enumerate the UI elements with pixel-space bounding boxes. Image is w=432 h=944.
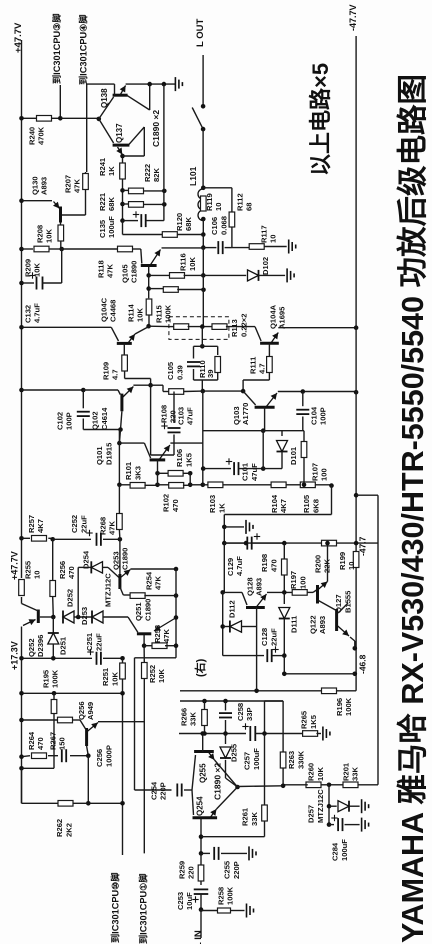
svg-text:Q255: Q255	[199, 763, 208, 783]
transistor Q138 base bar	[113, 94, 128, 97]
resistor R261 33K	[264, 734, 266, 806]
svg-text:L OUT: L OUT	[195, 18, 206, 47]
ground (zobel)	[289, 240, 296, 254]
svg-text:YAMAHA 雅马哈 RX-V530/430/HTR-555: YAMAHA 雅马哈 RX-V530/430/HTR-5550/5540 功放后…	[396, 74, 430, 943]
wire R195 bottom to rail	[22, 767, 55, 769]
svg-text:R257: R257	[27, 515, 36, 533]
dashed box around R113 pair	[169, 317, 229, 340]
wire right side vertical (ground line)	[163, 84, 165, 221]
svg-text:R263: R263	[287, 751, 296, 769]
transistor Q138 emitter arrow	[120, 86, 126, 96]
wire Q254 emitter to right vertex	[217, 787, 238, 809]
svg-text:D2396: D2396	[36, 635, 45, 657]
transistor Q251 emitter arrow	[154, 618, 176, 632]
resistor R114	[148, 290, 150, 298]
junction rail y=538.3	[19, 536, 24, 541]
svg-text:4K7: 4K7	[279, 499, 288, 513]
wire rail to R240	[22, 117, 37, 119]
svg-text:3K3: 3K3	[133, 466, 142, 480]
junction L101 top	[201, 186, 206, 191]
svg-text:150: 150	[58, 737, 67, 750]
wire R106 right down	[189, 473, 191, 485]
svg-text:470: 470	[171, 499, 180, 512]
wire R112 branch up/right	[203, 187, 232, 189]
svg-text:R109: R109	[101, 362, 110, 380]
transistor Q252 collector diagonal	[22, 604, 39, 612]
resistor R260 10K	[319, 784, 329, 786]
resistor R113a (0.22)	[169, 326, 175, 328]
transistor Q137 collector diagonal	[128, 127, 144, 145]
resistor R109	[122, 355, 128, 371]
svg-text:D102: D102	[261, 257, 270, 275]
wire Q102 emitter right	[133, 384, 150, 386]
svg-text:到IC301CPU④脚: 到IC301CPU④脚	[78, 14, 89, 85]
svg-text:R115: R115	[154, 304, 163, 323]
transistor Q256 base bar	[85, 728, 88, 746]
wire right bend down	[331, 485, 333, 515]
transistor Q127 base bar	[335, 609, 338, 631]
svg-text:R258: R258	[216, 887, 225, 905]
junction L101 bottom	[201, 217, 206, 222]
junction Q254 base node	[199, 851, 204, 856]
transistor Q105 collector	[148, 267, 150, 276]
svg-text:C1890: C1890	[121, 548, 130, 570]
svg-text:C251: C251	[85, 632, 94, 651]
svg-text:R104: R104	[270, 494, 279, 513]
svg-text:A1695: A1695	[278, 306, 287, 329]
power rail +47.7V (left)	[21, 40, 23, 578]
svg-text:D254: D254	[81, 550, 90, 569]
resistor R268 47K (x=119.4 line)	[118, 485, 120, 513]
wire Q253 emitter right	[130, 568, 176, 570]
transistor Q103 base bar	[255, 406, 275, 409]
junction R266 bottom	[202, 731, 207, 736]
svg-text:10: 10	[268, 235, 277, 243]
resistor R120	[162, 232, 177, 238]
capacitor C105 0.39	[193, 346, 195, 358]
svg-text:-47.7V: -47.7V	[348, 4, 358, 31]
wire rail bottom bend	[21, 768, 23, 803]
wire L OUT down	[202, 55, 204, 106]
svg-text:Q256: Q256	[77, 701, 86, 720]
transistor Q138 collector lead	[114, 84, 116, 95]
svg-text:47K: 47K	[108, 521, 117, 535]
capacitor C132 4.7uF	[19, 281, 24, 286]
svg-text:+47.7V: +47.7V	[13, 22, 24, 53]
wire x=119.4 down	[118, 443, 120, 485]
wire x=378 bottom to R201	[358, 784, 378, 786]
transistor Q105 emitter arrow	[150, 250, 161, 266]
svg-text:C252: C252	[70, 515, 79, 533]
svg-text:D255: D255	[229, 743, 238, 762]
wire Q128 base	[223, 591, 242, 593]
transistor Q122 base lead	[313, 590, 317, 592]
svg-text:R118: R118	[96, 260, 105, 278]
wire node down to R262 node	[87, 756, 89, 804]
resistor R107 100	[303, 431, 305, 441]
transistor Q102 collector	[121, 411, 122, 429]
transistor Q253 base bar	[118, 574, 121, 589]
svg-text:D253: D253	[80, 607, 89, 625]
svg-text:C256: C256	[95, 749, 104, 767]
svg-text:R101: R101	[124, 461, 133, 480]
wire node to C252	[53, 538, 91, 540]
transistor Q255 emitter arrow	[208, 752, 215, 761]
transistor Q254 base bar	[193, 816, 218, 819]
main line y=391 to C101 wire	[202, 391, 204, 485]
main line D102 to R115 node	[202, 275, 204, 326]
junction rail/R240 wire	[19, 116, 24, 121]
transistor Q251 collector diagonal	[128, 617, 138, 632]
junction C284	[327, 822, 332, 827]
resistor R263 330K	[280, 752, 286, 768]
svg-text:C1890 ×2: C1890 ×2	[151, 110, 161, 147]
wire C252 to node	[103, 538, 120, 540]
svg-text:L101: L101	[188, 166, 198, 186]
node CPU pin 4 wire	[86, 84, 88, 172]
wire to R258	[201, 910, 217, 912]
svg-text:R111: R111	[248, 356, 257, 374]
svg-text:Q138: Q138	[100, 88, 109, 108]
resistor R200 22K	[322, 540, 337, 546]
wire C256 to node	[70, 755, 88, 757]
wire down x=148.7	[148, 275, 150, 290]
wire rail to Q104C base	[22, 326, 112, 328]
svg-text:R251: R251	[101, 667, 110, 686]
transistor Q104A base bar	[260, 342, 279, 345]
wire node down/right to R108	[151, 384, 163, 386]
svg-text:L IN: L IN	[193, 930, 204, 944]
junction emitter/x176	[174, 615, 179, 620]
svg-text:R256: R256	[58, 561, 67, 579]
transistor Q122 emitter arrow	[318, 582, 328, 591]
resistor R199 10 (in rail)	[353, 552, 359, 568]
svg-text:47uF: 47uF	[186, 407, 195, 425]
svg-text:330K: 330K	[296, 750, 305, 769]
resistor R111	[267, 357, 273, 373]
wire into Q104A base	[255, 327, 261, 341]
svg-text:R112: R112	[235, 193, 244, 211]
wire y=430.7	[203, 430, 304, 432]
main line junction y=326.6 to C105 bracket	[200, 344, 205, 349]
svg-text:4.7: 4.7	[111, 369, 120, 380]
svg-text:0.22×2: 0.22×2	[239, 314, 248, 337]
ground (top, right-pointing)	[175, 77, 182, 91]
junction R107 bottom	[302, 483, 307, 488]
svg-text:到IC301CPU⑩脚: 到IC301CPU⑩脚	[110, 872, 121, 943]
svg-text:D252: D252	[65, 589, 74, 607]
svg-text:C258: C258	[236, 703, 245, 721]
transistor Q128 emitter arrow	[256, 594, 267, 608]
rail below R199	[355, 567, 357, 691]
svg-text:Q102: Q102	[91, 411, 100, 430]
svg-text:B1555: B1555	[343, 590, 352, 613]
junction Q101 base node	[118, 430, 120, 443]
transistor Q130 base bar	[59, 207, 62, 223]
svg-text:R119: R119	[205, 193, 214, 211]
svg-text:10: 10	[347, 562, 356, 570]
ground (C284)	[362, 818, 369, 832]
diode D102	[203, 274, 246, 276]
relay contact (switch)	[201, 104, 206, 109]
resistor R102 470	[158, 484, 170, 486]
svg-text:+17.3V: +17.3V	[9, 641, 19, 670]
diode D111	[283, 592, 285, 604]
junction y=391	[201, 389, 206, 394]
transistor Q253 collector	[120, 587, 123, 595]
diode D252 (zener)	[62, 611, 64, 624]
inductor L101 (3 loops, left of wire)	[198, 189, 203, 221]
wire R263 bottom bus to diamond vertex	[238, 785, 284, 788]
wire top to ground	[126, 83, 176, 85]
diode D255 (zener)	[225, 734, 227, 745]
resistor R258 100K	[218, 908, 231, 913]
resistor R117	[249, 244, 264, 250]
resistor R240	[37, 116, 52, 122]
wire C101 right up to Q103 collector	[262, 431, 264, 469]
ground (mid, right-pointing)	[246, 520, 253, 534]
transistor pair Q138/Q137 left vertex	[97, 117, 102, 122]
transistor Q254 base lead	[192, 790, 194, 815]
svg-text:68K: 68K	[184, 217, 193, 231]
wire rail to R267	[22, 719, 58, 721]
svg-text:R196: R196	[335, 698, 344, 716]
svg-text:4.7: 4.7	[258, 363, 267, 374]
wire y=693.3	[22, 692, 123, 694]
svg-text:C128: C128	[260, 628, 269, 646]
resistor R267 150	[58, 717, 73, 723]
resistor R266 33K	[204, 701, 206, 710]
ground (D257)	[362, 799, 369, 813]
svg-text:Q252: Q252	[27, 638, 36, 657]
wire Q254 node right to R261 bottom	[201, 836, 265, 838]
svg-text:-46.8: -46.8	[358, 654, 368, 674]
svg-text:C104: C104	[309, 406, 318, 425]
svg-text:R265: R265	[300, 710, 309, 729]
svg-text:C1890 ×2: C1890 ×2	[212, 763, 222, 800]
transistor Q104C base bar	[117, 342, 132, 345]
resistor R222	[123, 189, 129, 191]
svg-text:100K: 100K	[51, 669, 60, 688]
transistor Q254 base down	[200, 819, 202, 853]
transistor Q101 emitter arrow	[159, 445, 170, 460]
svg-text:22uF: 22uF	[79, 515, 88, 533]
junction R266 top	[202, 699, 207, 704]
svg-text:22uF: 22uF	[94, 633, 103, 651]
svg-text:C255: C255	[223, 860, 232, 879]
junction	[162, 82, 167, 87]
wire rail to R264	[22, 756, 31, 757]
resistor R253 47K	[144, 645, 154, 647]
wire y=658.3	[22, 657, 93, 659]
svg-text:D1915: D1915	[104, 442, 113, 465]
junction -46.8 node	[353, 646, 358, 651]
capacitor C252 22uF	[97, 533, 101, 546]
wire D254 drop	[77, 567, 79, 617]
transistor Q102 emitter arrow	[122, 387, 133, 399]
transistor Q130 collector	[60, 223, 62, 226]
resistor R104 4K7	[271, 482, 286, 488]
resistor R257 4K7	[32, 536, 47, 542]
junction R198 top	[282, 541, 287, 546]
diode D112 (zener)	[223, 626, 230, 628]
diode D251	[52, 617, 54, 633]
svg-text:R199: R199	[338, 552, 347, 570]
svg-text:220: 220	[187, 866, 196, 879]
wire R258 to ground	[231, 910, 245, 912]
resistor R106 1K5	[158, 472, 169, 474]
svg-text:R102: R102	[162, 494, 171, 512]
svg-text:R120: R120	[175, 213, 184, 231]
svg-text:47uF: 47uF	[250, 463, 259, 481]
svg-text:R105: R105	[302, 494, 311, 513]
svg-text:100uF: 100uF	[252, 748, 261, 770]
svg-text:(右): (右)	[193, 658, 207, 677]
resistor R259 220	[200, 853, 202, 865]
svg-text:Q137: Q137	[115, 123, 124, 143]
svg-text:到IC301CPU③脚: 到IC301CPU③脚	[51, 13, 62, 84]
bus y=690.8 (to R196)	[180, 690, 324, 692]
junction C258 bottom	[223, 731, 228, 736]
transistor Q255 base lead	[192, 755, 196, 790]
svg-text:100: 100	[298, 576, 307, 589]
wire y=391 main to right rail	[203, 390, 243, 392]
svg-text:10K: 10K	[45, 229, 54, 243]
svg-text:Q251: Q251	[134, 602, 143, 621]
wire R257 to node	[48, 537, 52, 539]
svg-text:Q105: Q105	[120, 264, 129, 283]
svg-text:Q253: Q253	[111, 551, 120, 570]
capacitor C102 100P	[82, 390, 84, 408]
svg-text:A949: A949	[86, 702, 95, 720]
wire Q128 emitter to R197	[267, 591, 292, 593]
svg-text:C101: C101	[241, 462, 250, 481]
wire D257 node down	[328, 785, 330, 825]
wire to C254	[135, 789, 172, 791]
wire y=484.8 to R103	[190, 484, 203, 486]
svg-text:10K: 10K	[188, 257, 197, 271]
wire R207 to base	[85, 190, 87, 216]
resistor R241	[120, 163, 126, 179]
junction rail y=327.3	[19, 325, 24, 330]
wire Q101 base	[119, 442, 144, 444]
wire rail to Q130 emitter	[22, 200, 53, 202]
svg-text:MTZJ12C: MTZJ12C	[316, 789, 325, 823]
capacitor C255 220P	[201, 852, 210, 854]
transistor Q251 base bar	[137, 632, 151, 635]
transistor Q252 emitter arrow	[23, 620, 36, 626]
svg-text:10K: 10K	[110, 672, 119, 686]
wire R240 node to Q137/Q138 left vertex	[60, 117, 99, 119]
wire R115 to main	[177, 289, 203, 291]
junction rail y=693.3	[19, 691, 24, 696]
wire R118 to Q105 base	[133, 248, 141, 250]
capacitor C256 1000P	[62, 749, 66, 762]
resistor R208	[58, 225, 64, 241]
svg-text:R103: R103	[208, 495, 217, 513]
svg-text:10: 10	[214, 203, 223, 211]
svg-text:100K: 100K	[164, 304, 173, 323]
svg-text:C106: C106	[210, 217, 219, 235]
junction	[174, 593, 179, 598]
junction rail y=200.7	[19, 198, 24, 203]
wire x=176 bottom bend left	[135, 657, 177, 659]
junction	[120, 202, 125, 207]
svg-text:100: 100	[319, 468, 328, 481]
svg-text:100P: 100P	[65, 412, 74, 430]
wire C254 to diamond left vertex	[184, 789, 192, 791]
svg-text:D111: D111	[290, 615, 299, 633]
transistor Q103 base lead	[243, 391, 256, 405]
svg-text:82K: 82K	[152, 168, 161, 182]
wire Q101 collector down	[157, 473, 159, 485]
svg-text:R113: R113	[230, 319, 239, 337]
svg-text:R253: R253	[153, 625, 162, 643]
svg-text:D101: D101	[289, 446, 298, 465]
diode D254 (zener)	[78, 566, 91, 568]
transistor Q128 base bar	[246, 606, 265, 609]
svg-text:22uF: 22uF	[269, 628, 278, 646]
transistor Q105 base bar	[141, 264, 157, 267]
wire base down to R252	[143, 646, 145, 662]
svg-text:R201: R201	[341, 762, 350, 781]
svg-text:MTZJ12C: MTZJ12C	[103, 573, 112, 607]
svg-text:1K5: 1K5	[184, 452, 193, 467]
transistor Q104C collector	[123, 343, 125, 355]
capacitor C284 100uF	[329, 824, 334, 826]
transistor Q103 emitter arrow	[266, 393, 277, 407]
resistor R112	[229, 212, 235, 227]
wire rail to R257	[22, 537, 31, 539]
svg-text:6K8: 6K8	[311, 499, 320, 513]
svg-text:39: 39	[206, 370, 215, 378]
transistor Q137 base bar	[113, 144, 130, 147]
svg-text:470: 470	[36, 737, 45, 750]
transistor Q255 base bar	[194, 750, 214, 753]
svg-text:47K: 47K	[154, 576, 163, 590]
resistor R116	[170, 273, 185, 279]
ground (D102)	[287, 268, 294, 282]
resistor R113b (0.22)	[212, 324, 227, 330]
resistor R262 2K2	[58, 801, 73, 807]
svg-text:2K2: 2K2	[64, 823, 73, 837]
transistor Q256 collector	[87, 746, 89, 756]
resistor R207	[83, 174, 89, 190]
svg-text:R198: R198	[260, 554, 269, 572]
wire Q102 collector down to Q101 base node	[119, 430, 120, 444]
svg-text:68: 68	[245, 203, 254, 211]
svg-text:100uF: 100uF	[107, 216, 116, 238]
svg-text:R106: R106	[175, 449, 184, 467]
power rail -47.7V	[355, 36, 357, 552]
resistor R196 100K	[322, 688, 337, 694]
wire L IN	[200, 910, 202, 938]
wire R108 to main node	[184, 390, 203, 392]
wire node down to Q253	[119, 539, 121, 575]
svg-text:Q130: Q130	[30, 176, 39, 195]
wire R109 down-right	[124, 371, 126, 379]
svg-text:+47.7V: +47.7V	[9, 551, 19, 580]
resistor R105 6K8	[300, 482, 315, 488]
junction	[147, 82, 152, 87]
junction rail y=720	[19, 718, 24, 723]
capacitor C253 10uF	[194, 889, 209, 894]
svg-text:C102: C102	[55, 412, 64, 430]
svg-text:A893: A893	[40, 177, 49, 195]
main wire down to D102 node	[202, 248, 204, 276]
svg-text:10K: 10K	[33, 263, 42, 277]
svg-text:33K: 33K	[350, 767, 359, 781]
